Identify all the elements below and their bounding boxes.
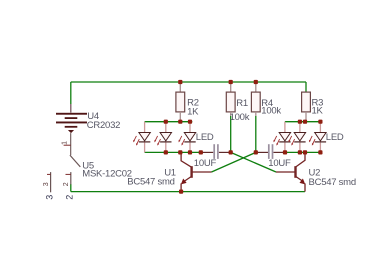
- svg-text:BC547 smd: BC547 smd: [309, 177, 356, 188]
- svg-text:3: 3: [45, 195, 55, 200]
- LED D2: [154, 122, 171, 153]
- switch U5 pin 1 tick: [64, 144, 71, 146]
- wire cross diagonal to U2 base: [231, 152, 276, 172]
- junction (180.3,152.4): [178, 150, 182, 154]
- wire top V+ rail: [71, 81, 306, 83]
- svg-text:10UF: 10UF: [194, 158, 217, 169]
- wire left V+ drop to battery: [70, 82, 72, 104]
- LED D5: [288, 122, 305, 153]
- LED D4: [273, 122, 290, 153]
- junction (320.4,152.4): [318, 150, 322, 154]
- resistor R2: [176, 82, 185, 122]
- junction (190,152.4): [188, 150, 192, 154]
- svg-text:10UF: 10UF: [268, 158, 291, 169]
- svg-text:100k: 100k: [261, 105, 281, 116]
- junction (299.9,152.4): [298, 150, 302, 154]
- LED D3: [179, 122, 196, 153]
- wire LED bottom rail right: [285, 151, 320, 153]
- svg-text:LED: LED: [196, 132, 214, 143]
- junction (255.8,82): [254, 80, 258, 84]
- switch U5 pin 3 stub: [50, 172, 52, 192]
- junction (255.8,152.4): [254, 150, 258, 154]
- wire ground rail: [71, 191, 305, 193]
- switch U5 arm: [70, 155, 80, 167]
- LED D6: [309, 122, 326, 153]
- wire R4 down to cap node: [255, 116, 257, 152]
- junction (165.8,121.7): [164, 120, 168, 124]
- switch U5 pin 2 stub: [70, 172, 72, 184]
- junction (190,121.7): [188, 120, 192, 124]
- LED D1: [133, 122, 150, 153]
- svg-text:3: 3: [43, 182, 50, 186]
- junction (181.1,191.6): [179, 190, 183, 194]
- wire LED top rail right: [285, 121, 321, 123]
- wire R1 down to cap node: [230, 116, 232, 152]
- switch U5 pin 2 tick: [66, 173, 71, 175]
- wire LED bottom rail left: [145, 151, 201, 153]
- transistor U1: [181, 153, 212, 192]
- resistor R4: [251, 82, 260, 116]
- capacitor C1 10UF: [201, 144, 231, 159]
- junction (165.8,152.4): [164, 150, 168, 154]
- resistor R1: [226, 82, 235, 116]
- resistor R3: [302, 92, 311, 122]
- junction (305,121.7): [303, 120, 307, 124]
- svg-text:1K: 1K: [187, 107, 199, 118]
- wire ground left riser to switch: [70, 184, 72, 192]
- wire LED top rail left: [145, 121, 193, 123]
- svg-text:CR2032: CR2032: [87, 120, 120, 131]
- junction (200.8,152.4): [199, 150, 203, 154]
- svg-text:1: 1: [61, 141, 68, 145]
- battery U4: [56, 104, 87, 155]
- junction (305,152.4): [303, 150, 307, 154]
- svg-text:1K: 1K: [312, 106, 324, 117]
- junction (230.7,152.4): [229, 150, 233, 154]
- switch U5 pin 3 tick: [47, 173, 51, 175]
- svg-text:2: 2: [63, 182, 70, 186]
- junction (299.9,121.7): [298, 120, 302, 124]
- svg-text:R1: R1: [236, 98, 248, 109]
- svg-text:MSK-12C02: MSK-12C02: [82, 169, 132, 180]
- svg-text:100k: 100k: [230, 112, 250, 123]
- wire cross diagonal to U1 base: [212, 152, 256, 172]
- junction (320.4,121.7): [318, 120, 322, 124]
- svg-text:2: 2: [65, 195, 75, 200]
- svg-text:BC547 smd: BC547 smd: [127, 176, 174, 187]
- junction (230.7,82): [229, 80, 233, 84]
- transistor U2: [276, 153, 305, 192]
- svg-text:LED: LED: [326, 132, 344, 143]
- junction (180.3,82): [178, 80, 182, 84]
- wire R3 drop from rail: [305, 82, 307, 92]
- junction (285,152.4): [283, 150, 287, 154]
- capacitor C2 10UF: [256, 144, 285, 159]
- junction (180.3,121.7): [178, 120, 182, 124]
